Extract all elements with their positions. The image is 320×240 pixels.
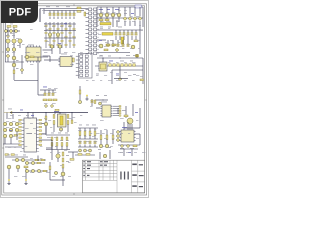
transistor Q79b bbox=[59, 128, 62, 131]
net tap component on bus bbox=[55, 109, 59, 111]
wire bbox=[134, 21, 136, 26]
capacitor C60 bbox=[44, 93, 46, 96]
transistor Q10 bbox=[99, 13, 103, 17]
value label label bbox=[16, 59, 19, 62]
matrix column wire 0 bbox=[45, 22, 47, 48]
pin bit 2 bbox=[119, 110, 121, 111]
value label label bbox=[58, 42, 61, 45]
transistor Q97 bbox=[79, 149, 82, 152]
resistor R93 bbox=[11, 154, 15, 156]
capacitor C42 bbox=[123, 33, 125, 36]
transistor Q78b bbox=[44, 122, 48, 126]
value label label bbox=[51, 132, 54, 135]
capacitor C14 bbox=[65, 13, 67, 16]
matrix column wire 5 bbox=[65, 22, 67, 48]
PDF badge bbox=[0, 0, 38, 23]
wire bbox=[25, 170, 48, 172]
wire bbox=[53, 17, 55, 20]
wire bbox=[100, 130, 102, 135]
value label label bbox=[43, 86, 47, 89]
resistor R120 bbox=[78, 154, 82, 156]
wire bbox=[132, 104, 134, 116]
transistor Q54 bbox=[99, 102, 102, 105]
wire bbox=[21, 55, 23, 74]
value label label bbox=[126, 54, 130, 57]
value label label bbox=[131, 12, 134, 15]
wire bbox=[62, 176, 64, 186]
matrix component at 46,41 bbox=[45, 40, 47, 41]
wire bbox=[42, 133, 46, 135]
capacitor C454 bbox=[127, 44, 129, 47]
matrix component at 58,37 bbox=[57, 36, 59, 37]
capacitor C62 bbox=[52, 93, 54, 96]
wire bbox=[112, 130, 114, 135]
wire bbox=[125, 106, 127, 118]
transistor Q51 bbox=[12, 63, 16, 67]
transistor QB5 bbox=[37, 169, 40, 172]
junction bbox=[27, 112, 28, 113]
wire bbox=[119, 66, 121, 77]
value label label bbox=[28, 44, 34, 47]
resistor RB2 bbox=[61, 143, 63, 147]
wire bbox=[8, 169, 10, 180]
capacitor C453 bbox=[122, 44, 124, 47]
transistor Q95 bbox=[105, 144, 109, 148]
capacitor C13 bbox=[61, 13, 63, 16]
wire bbox=[52, 90, 54, 93]
wire bbox=[123, 36, 125, 40]
resistor R97 bbox=[62, 152, 64, 156]
wire bbox=[129, 21, 131, 26]
value label label bbox=[124, 130, 128, 133]
wire bbox=[57, 17, 59, 20]
wire bbox=[49, 56, 51, 62]
diode D60 bbox=[44, 104, 47, 107]
wire bbox=[97, 29, 143, 31]
transistor QC1 bbox=[117, 131, 120, 134]
wire bbox=[97, 17, 143, 19]
border zone tick left3 bbox=[2, 147, 4, 149]
capacitor C80 bbox=[79, 141, 81, 144]
title block outer bbox=[83, 160, 145, 193]
value label label bbox=[66, 5, 70, 8]
matrix component at 62,26 bbox=[61, 25, 63, 26]
junction bbox=[59, 112, 60, 113]
wire bbox=[5, 156, 28, 158]
wire bbox=[131, 124, 133, 130]
resistor R61 bbox=[48, 99, 52, 101]
wire bbox=[127, 122, 129, 130]
capacitor C15 bbox=[69, 13, 71, 16]
designator text specks bbox=[6, 10, 145, 177]
resistor RD1 bbox=[35, 159, 39, 161]
wire bbox=[117, 40, 119, 44]
wire bbox=[51, 146, 53, 150]
value label label bbox=[130, 147, 134, 150]
resistor R41 bbox=[112, 44, 116, 46]
transistor Q74b bbox=[9, 128, 13, 132]
op-amp/IC U11 bbox=[119, 130, 135, 142]
connector U6 outline bbox=[79, 54, 93, 79]
value label label bbox=[65, 132, 68, 135]
wire bbox=[13, 28, 15, 39]
wire bbox=[136, 54, 138, 58]
wire bbox=[124, 21, 126, 26]
MCU U5 bbox=[22, 118, 39, 152]
transistor Q72b bbox=[15, 122, 19, 126]
matrix component at 62,33 bbox=[61, 32, 63, 33]
wire bbox=[10, 138, 12, 144]
title block grid bbox=[83, 160, 145, 193]
value label label bbox=[104, 94, 107, 97]
resistor R52 bbox=[73, 58, 75, 62]
wire bbox=[10, 112, 88, 114]
transistor Q98 bbox=[84, 149, 87, 152]
matrix component at 46,26 bbox=[45, 25, 47, 26]
wire bbox=[102, 58, 104, 63]
value label label bbox=[133, 73, 136, 76]
wire bbox=[45, 124, 47, 135]
diode D11 bbox=[128, 17, 132, 21]
matrix column wire 7 bbox=[73, 22, 75, 48]
value label label bbox=[92, 124, 96, 127]
pin bit 1 bbox=[119, 108, 121, 109]
wire bbox=[120, 148, 138, 150]
wire bbox=[73, 17, 75, 20]
wire bbox=[129, 124, 131, 130]
wire bbox=[97, 39, 106, 41]
wire bbox=[97, 6, 143, 8]
transistor Q50 bbox=[12, 56, 16, 60]
resistor R102 bbox=[84, 131, 86, 136]
resistor R98 bbox=[62, 158, 64, 162]
resistor R76 bbox=[45, 116, 47, 120]
value label label bbox=[99, 39, 102, 42]
resistor R99 bbox=[62, 164, 64, 168]
inductor bar L1 bbox=[102, 33, 113, 36]
wire bbox=[142, 58, 144, 84]
resistor RA3 bbox=[66, 137, 68, 141]
wire bbox=[42, 123, 46, 125]
capacitor C450 bbox=[107, 44, 109, 47]
border zone tick top bbox=[73, 4, 75, 6]
U8 pin wire 4 bbox=[113, 115, 119, 117]
wire bbox=[49, 17, 51, 20]
resistor R43 bbox=[134, 40, 138, 42]
connector J2 pin column bbox=[94, 8, 99, 55]
wire bbox=[69, 17, 71, 20]
wire bbox=[46, 134, 70, 136]
wire bbox=[96, 107, 100, 109]
transistor QB3 bbox=[25, 169, 28, 172]
wire bbox=[111, 70, 113, 84]
value label label bbox=[25, 51, 29, 54]
resistor RB0 bbox=[51, 143, 53, 147]
capacitor C81 bbox=[84, 141, 86, 144]
wire bbox=[135, 36, 137, 40]
resistor RA1 bbox=[56, 137, 58, 141]
wire bbox=[124, 127, 140, 129]
wire bbox=[124, 7, 126, 16]
wire bbox=[75, 154, 95, 156]
wire bbox=[40, 89, 56, 91]
wire bbox=[118, 7, 120, 13]
transistor Q94 bbox=[99, 144, 103, 148]
value label label bbox=[46, 5, 50, 8]
wire bbox=[94, 145, 96, 148]
wire bbox=[115, 36, 117, 40]
wire bbox=[71, 113, 73, 121]
ground bbox=[7, 179, 10, 184]
inductor bar L3 bbox=[60, 116, 63, 125]
wire bbox=[48, 90, 50, 93]
resistor R77 bbox=[53, 115, 55, 119]
resistor RA2 bbox=[61, 137, 63, 141]
wire bbox=[5, 146, 22, 148]
matrix component at 54,33 bbox=[53, 32, 55, 33]
resistor R95 bbox=[24, 166, 28, 168]
transistor Q52 bbox=[25, 55, 29, 59]
inductor bar L2 bbox=[121, 37, 124, 44]
resistor R51 bbox=[30, 56, 34, 58]
value label label bbox=[55, 145, 58, 148]
value label label bbox=[110, 39, 113, 42]
transistor Q32 bbox=[50, 45, 53, 48]
value label label bbox=[115, 8, 119, 11]
resistor RA0 bbox=[51, 137, 53, 141]
transistor QC3 bbox=[117, 139, 120, 142]
wire bbox=[25, 162, 45, 164]
matrix column wire 4 bbox=[61, 22, 63, 48]
resistor R20 bbox=[7, 26, 11, 28]
connector J1 pin column bbox=[86, 8, 94, 55]
junction bbox=[45, 112, 46, 113]
wire bbox=[3, 143, 20, 145]
wire bbox=[127, 30, 129, 33]
wire bbox=[73, 11, 75, 14]
capacitor C50 bbox=[109, 64, 112, 67]
value label label bbox=[122, 109, 126, 112]
ground bbox=[85, 95, 88, 100]
U8 pin wire 3 bbox=[113, 112, 119, 114]
resistor R79 bbox=[67, 115, 69, 119]
wire bbox=[96, 7, 98, 27]
value label label bbox=[56, 5, 59, 8]
net label box 132 bbox=[135, 5, 142, 8]
transistor Q77b bbox=[9, 134, 13, 138]
transistor Q96 bbox=[103, 154, 107, 158]
wire bbox=[6, 113, 8, 120]
wire bbox=[100, 7, 102, 13]
wire bbox=[69, 11, 71, 14]
wire bbox=[106, 130, 108, 135]
diode D91 bbox=[126, 144, 129, 147]
wire bbox=[84, 145, 86, 148]
capacitor C452 bbox=[117, 44, 119, 47]
value label label bbox=[64, 22, 67, 25]
value label label bbox=[120, 60, 124, 63]
capacitor C82 bbox=[89, 141, 91, 144]
border zone tick left bbox=[2, 99, 4, 101]
wire bbox=[139, 25, 141, 54]
wire bbox=[99, 152, 101, 159]
matrix component at 46,33 bbox=[45, 32, 47, 33]
resistor R50 bbox=[13, 70, 15, 74]
transistor Q99 bbox=[89, 149, 92, 152]
value label label bbox=[133, 54, 136, 57]
resistor R92 bbox=[5, 154, 9, 156]
wire bbox=[106, 17, 108, 22]
wire bbox=[25, 168, 27, 180]
ferrite FB1 bbox=[136, 55, 139, 58]
wire bbox=[79, 128, 81, 131]
value label label bbox=[116, 73, 119, 76]
resistor RB2 bbox=[43, 170, 47, 172]
value label label bbox=[109, 60, 113, 63]
wire bbox=[61, 11, 63, 14]
value label label bbox=[12, 34, 15, 37]
wire bbox=[79, 145, 81, 148]
resistor R10 bbox=[77, 7, 81, 9]
wire bbox=[89, 145, 91, 148]
resistor R53 bbox=[140, 79, 144, 81]
value label label bbox=[108, 55, 111, 58]
wire bbox=[112, 22, 114, 27]
wire bbox=[46, 147, 52, 149]
diode D50 bbox=[20, 68, 24, 72]
resistor R100 bbox=[70, 159, 74, 161]
resistor R80 bbox=[124, 115, 128, 117]
wire bbox=[127, 40, 129, 44]
capacitor C51 bbox=[113, 64, 116, 67]
transistor Q12 bbox=[111, 13, 115, 17]
transistor Q21 bbox=[12, 39, 16, 43]
value label label bbox=[20, 109, 23, 112]
value label label bbox=[98, 148, 101, 151]
border zone tick right bbox=[145, 99, 147, 101]
matrix component at 50,37 bbox=[49, 36, 51, 37]
wire bbox=[123, 30, 125, 33]
matrix column wire 3 bbox=[57, 22, 59, 48]
border zone tick left2 bbox=[2, 51, 4, 53]
matrix component at 70,41 bbox=[69, 40, 71, 41]
junction bbox=[65, 23, 66, 24]
diode D40 bbox=[115, 48, 119, 52]
transistor Q22 bbox=[18, 39, 22, 43]
U8 pin wire 1 bbox=[113, 108, 119, 110]
wire bbox=[16, 132, 18, 140]
wire bbox=[13, 52, 15, 80]
wire bbox=[97, 52, 130, 54]
opto U10 box bbox=[99, 62, 107, 71]
value label label bbox=[135, 111, 138, 114]
transistor Q73b bbox=[3, 128, 7, 132]
wire bbox=[51, 49, 53, 55]
wire bbox=[116, 20, 118, 27]
value label label bbox=[16, 67, 19, 70]
resistor R104 bbox=[94, 131, 96, 136]
diode D13 bbox=[138, 17, 142, 21]
wire bbox=[84, 136, 86, 140]
transistor Q13 bbox=[117, 13, 121, 17]
value label label bbox=[6, 34, 9, 37]
wire bbox=[49, 11, 51, 14]
MCU pin bits right bbox=[39, 119, 42, 145]
matrix column wire 1 bbox=[49, 22, 51, 48]
transistor QB4 bbox=[31, 169, 34, 172]
wire bbox=[53, 11, 55, 14]
resistor RB1 bbox=[37, 162, 41, 164]
capacitor C11 bbox=[53, 13, 55, 16]
wire bbox=[37, 57, 39, 95]
value label label bbox=[15, 154, 18, 157]
wire bbox=[44, 37, 76, 39]
sheet outer border frame bbox=[2, 4, 147, 195]
junction bbox=[57, 23, 58, 24]
wire bbox=[131, 149, 133, 156]
transistor QB6 bbox=[54, 171, 57, 174]
wire bbox=[53, 125, 55, 133]
value label label bbox=[124, 12, 127, 15]
value label label bbox=[120, 147, 124, 150]
transistor Q40 bbox=[99, 44, 103, 48]
capacitor C451 bbox=[112, 44, 114, 47]
resistor R79b bbox=[67, 121, 69, 125]
wire bbox=[65, 17, 67, 20]
MCU pin bits left bbox=[19, 119, 22, 145]
diode D61 bbox=[50, 104, 53, 107]
wire bbox=[4, 138, 6, 144]
capacitor C40 bbox=[115, 33, 117, 36]
op-amp/IC U2 bbox=[26, 45, 41, 62]
transistor Q92 bbox=[56, 154, 60, 158]
wire bbox=[44, 90, 46, 93]
matrix component at 54,26 bbox=[53, 25, 55, 26]
op-amp/IC U8 bbox=[100, 105, 112, 117]
wire bbox=[43, 9, 45, 15]
matrix column wire 2 bbox=[53, 22, 55, 48]
U8 pin wire 0 bbox=[113, 105, 119, 107]
wire bbox=[72, 152, 74, 158]
thumbnail edge bbox=[1, 1, 149, 198]
inductor bar L0 bbox=[100, 23, 111, 25]
wire bbox=[65, 11, 67, 14]
transistor Q71 bbox=[9, 122, 13, 126]
value label label bbox=[118, 26, 122, 29]
wire bbox=[117, 108, 119, 114]
resistor R11 bbox=[77, 11, 81, 13]
value label label bbox=[8, 108, 12, 111]
transistor QD2 bbox=[21, 158, 24, 161]
capacitor C55 bbox=[129, 64, 132, 67]
wire bbox=[46, 149, 70, 151]
wire bbox=[89, 128, 91, 131]
capacitor C45 bbox=[135, 33, 137, 36]
value label label bbox=[17, 44, 20, 47]
value label label bbox=[99, 55, 103, 58]
wire bbox=[68, 151, 78, 153]
resistor R21 bbox=[13, 26, 17, 28]
diode D51 bbox=[118, 77, 122, 81]
resistor R12 bbox=[84, 12, 86, 16]
wire bbox=[49, 162, 51, 180]
wire bbox=[40, 8, 88, 10]
wire bbox=[107, 40, 109, 44]
resistor R78 bbox=[53, 121, 55, 125]
wire bbox=[78, 146, 98, 148]
resistor R70 bbox=[14, 135, 18, 137]
diode D10 bbox=[123, 17, 127, 21]
